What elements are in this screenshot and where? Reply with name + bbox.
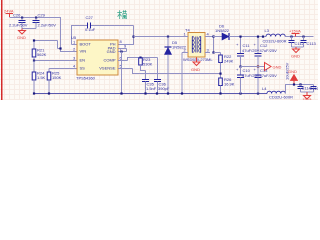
node EN divider: [33, 60, 35, 62]
svg-text:L4: L4: [262, 86, 267, 91]
svg-text:+15VA: +15VA: [289, 29, 301, 34]
ground GND (below transformer): [191, 58, 200, 73]
svg-text:C29: C29: [38, 13, 46, 18]
capacitor C13: [254, 67, 278, 94]
power port 24VA: [4, 9, 14, 18]
capacitor C115: [310, 85, 320, 93]
svg-text:150K: 150K: [52, 75, 62, 80]
svg-text:T4: T4: [185, 28, 190, 33]
svg-text:GND: GND: [291, 54, 300, 59]
svg-text:WSD530-273ML: WSD530-273ML: [183, 57, 213, 62]
capacitor C112: [289, 37, 305, 48]
capacitor C12: [254, 37, 278, 67]
svg-text:EN: EN: [80, 58, 86, 63]
op IC U5 TPS54360: [71, 35, 127, 81]
node +15 rail: [290, 36, 292, 38]
wire GND drop to rail: [121, 52, 123, 94]
svg-text:GND: GND: [191, 67, 200, 72]
wire +15 cap bottoms: [292, 46, 304, 48]
svg-text:BOOT: BOOT: [80, 42, 92, 47]
svg-text:2.2uF/50V: 2.2uF/50V: [9, 23, 28, 28]
resistor R21: [32, 39, 60, 60]
wire T pin2 to rail: [182, 36, 184, 38]
svg-text:47uF/25V: 47uF/25V: [260, 48, 278, 53]
ground GND (-15 rail, up arrow): [288, 69, 298, 85]
svg-text:C115: C115: [310, 86, 319, 91]
wire 24VA rail: [10, 17, 62, 19]
svg-text:1.5nF: 1.5nF: [146, 86, 157, 91]
capacitor C27: [85, 15, 96, 32]
ground GND (+15 rail): [291, 47, 300, 59]
svg-text:1N5822: 1N5822: [215, 28, 230, 33]
wire VIN drop: [61, 18, 78, 52]
wire COMP: [118, 58, 158, 61]
wire SS: [49, 68, 77, 70]
svg-text:CD32U-600R: CD32U-600R: [263, 39, 287, 44]
svg-text:L3: L3: [265, 28, 270, 33]
wire -15 cap bottoms: [301, 91, 314, 93]
diode D5: [165, 37, 187, 94]
svg-text:47uF/25V: 47uF/25V: [242, 48, 260, 53]
capacitor C10: [236, 67, 260, 94]
node -15 rail: [293, 83, 295, 85]
wire BOOT loop: [72, 26, 88, 45]
wire PAD jog: [118, 49, 127, 52]
node COMP R23: [139, 57, 141, 59]
wire boot to PH: [91, 26, 134, 45]
wire mid rail: [241, 66, 259, 68]
capacitor C114: [298, 85, 312, 93]
wire PH rail: [134, 36, 189, 38]
svg-text:249K: 249K: [224, 59, 234, 64]
node D5 top: [167, 36, 169, 38]
node VIN-R21 junction: [59, 47, 61, 49]
svg-text:SS: SS: [80, 66, 86, 71]
resistor R24: [32, 61, 45, 94]
svg-text:TPS54360: TPS54360: [76, 76, 96, 81]
svg-text:562K: 562K: [37, 52, 47, 57]
node L3 start: [262, 36, 264, 38]
transformer T4: [183, 28, 213, 63]
wire VSENSE: [118, 69, 220, 74]
svg-text:47uF/25V: 47uF/25V: [260, 73, 278, 78]
capacitor C113: [301, 37, 317, 48]
svg-text:C27: C27: [86, 15, 94, 20]
wire cap bottoms: [22, 28, 36, 30]
svg-text:GND: GND: [288, 69, 297, 74]
resistor R23: [139, 57, 153, 71]
svg-text:GND: GND: [17, 35, 26, 40]
ground GND (mid right arrow): [258, 63, 282, 71]
resistor R26: [219, 77, 235, 94]
capacitor C11: [236, 37, 260, 67]
node VSENSE tap: [219, 73, 221, 75]
sheet border: [1, 0, 3, 100]
resistor R25: [47, 69, 61, 94]
svg-text:2.2uF/50V: 2.2uF/50V: [38, 23, 57, 28]
capacitor C26: [9, 13, 28, 29]
svg-text:VIN: VIN: [80, 49, 87, 54]
power port -15VA (cut): [301, 92, 312, 102]
svg-text:16.9K: 16.9K: [224, 82, 235, 87]
diode D6: [213, 24, 266, 41]
capacitor C36: [154, 58, 170, 94]
svg-text:CD32U-600R: CD32U-600R: [269, 95, 293, 100]
inductor L3: [263, 28, 314, 44]
node rail-C26: [21, 17, 23, 19]
capacitor C35: [142, 71, 157, 94]
wire bottom rail: [34, 93, 267, 95]
ground GND (left): [17, 29, 26, 41]
capacitor C29: [33, 13, 57, 29]
node rail-C29: [35, 17, 37, 19]
svg-text:VSENSE: VSENSE: [99, 66, 116, 71]
svg-text:GND: GND: [107, 49, 116, 54]
node mid rail C11 C12: [239, 66, 241, 68]
svg-text:1.5K: 1.5K: [37, 75, 46, 80]
svg-text:-15VA: -15VA: [301, 97, 312, 100]
label module char: [117, 10, 126, 19]
wire EN: [34, 60, 77, 62]
svg-text:530K: 530K: [143, 62, 153, 67]
node PH net: [132, 36, 134, 38]
node rail junctions: [33, 92, 35, 94]
resistor R22: [214, 53, 234, 79]
wire T pin3 to mid rail: [213, 37, 215, 53]
node GND drop: [120, 51, 122, 53]
wire GND pin: [118, 51, 127, 53]
svg-text:C113: C113: [307, 41, 317, 46]
node top rail C11 C12: [239, 36, 241, 38]
svg-text:GND: GND: [273, 65, 282, 70]
power port +15VA: [289, 29, 301, 37]
svg-text:COMP: COMP: [104, 58, 116, 63]
svg-text:C26: C26: [13, 13, 21, 18]
inductor L4: [262, 85, 314, 100]
svg-text:0.1uF: 0.1uF: [85, 27, 96, 32]
